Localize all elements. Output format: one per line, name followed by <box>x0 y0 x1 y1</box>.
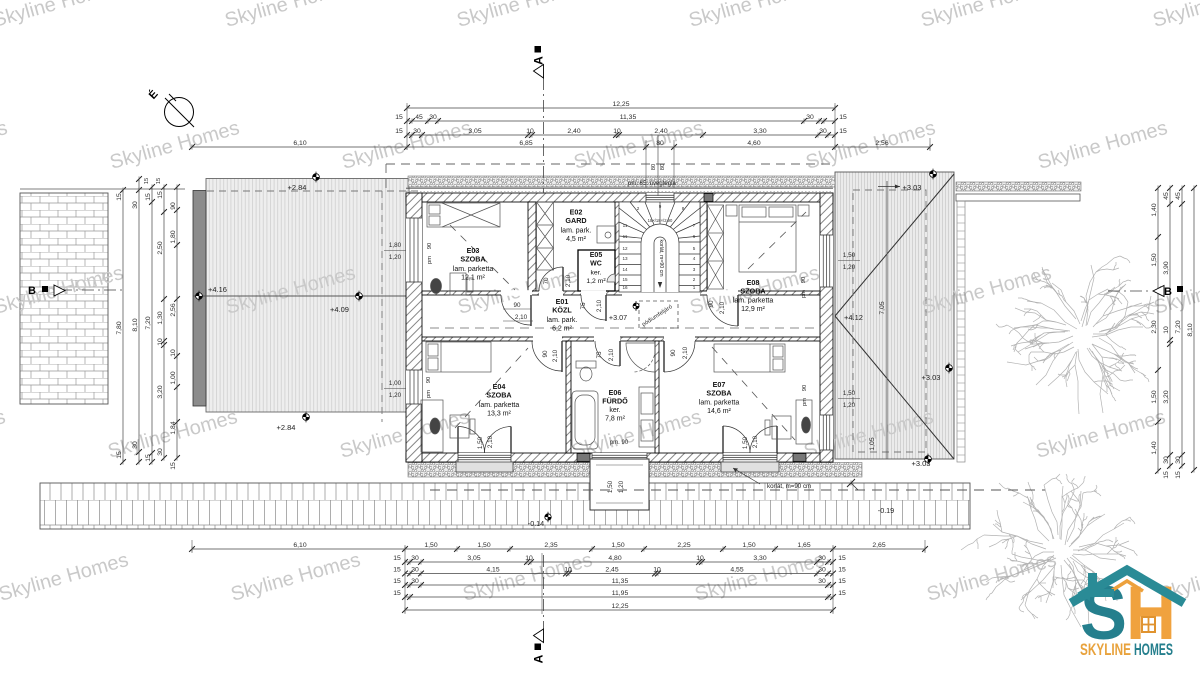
gravel strip above plan <box>408 176 835 187</box>
svg-text:15: 15 <box>393 578 401 585</box>
svg-text:30: 30 <box>818 578 826 585</box>
benchmark level symbol <box>545 512 551 522</box>
svg-text:3,05: 3,05 <box>468 128 481 135</box>
svg-text:6: 6 <box>693 234 696 239</box>
svg-text:80: 80 <box>651 164 657 170</box>
svg-text:12,25: 12,25 <box>612 101 629 108</box>
outer wall top <box>406 193 833 202</box>
pillar bottom wall right of E07 door <box>793 454 806 462</box>
brick paving left <box>20 193 108 404</box>
insulation lines above top wall <box>406 187 833 189</box>
svg-text:15: 15 <box>393 590 401 597</box>
benchmark level symbol <box>313 172 320 183</box>
svg-text:1,50: 1,50 <box>1151 390 1158 403</box>
french door E07 bottom <box>723 453 777 462</box>
svg-text:1,65: 1,65 <box>797 542 810 549</box>
svg-text:15: 15 <box>395 114 403 121</box>
svg-text:15: 15 <box>170 462 177 470</box>
svg-text:10: 10 <box>170 349 177 357</box>
interior wall E03/E02 <box>528 202 536 291</box>
garage middle ridge line <box>193 295 409 297</box>
garage left dark wall <box>193 191 206 407</box>
gravel strip below plan <box>408 463 862 478</box>
svg-text:ker.: ker. <box>609 407 620 414</box>
interior wall E04/E06 <box>566 341 571 453</box>
north arrow <box>165 98 194 127</box>
toilet E06 <box>576 361 596 368</box>
svg-text:30: 30 <box>818 555 826 562</box>
svg-text:4,60: 4,60 <box>747 140 760 147</box>
svg-text:15: 15 <box>157 191 164 199</box>
benchmark level symbol <box>925 454 932 465</box>
nightstands E08 <box>726 205 737 216</box>
svg-text:8: 8 <box>682 206 685 211</box>
korlát leader <box>733 468 760 484</box>
garage dashed line right <box>381 191 383 422</box>
window E03 left wall <box>406 218 422 282</box>
svg-text:90: 90 <box>670 349 677 357</box>
outer wall bottom <box>406 453 833 462</box>
svg-text:10: 10 <box>525 555 533 562</box>
outer wall left <box>406 193 422 462</box>
svg-text:75: 75 <box>596 351 603 359</box>
svg-text:14,6 m²: 14,6 m² <box>707 408 731 415</box>
svg-text:1,20: 1,20 <box>843 264 856 271</box>
svg-text:1,84: 1,84 <box>170 421 177 434</box>
WC E05 walls <box>578 250 615 291</box>
svg-text:2: 2 <box>693 277 696 282</box>
benchmark level symbol <box>356 291 363 302</box>
french leaf E04 right <box>485 427 512 454</box>
brick paving strip bottom <box>40 483 970 529</box>
svg-text:1,50: 1,50 <box>611 542 624 549</box>
tree bottom right <box>961 474 1137 627</box>
level dashed line bottom <box>430 489 1045 491</box>
svg-text:1,80: 1,80 <box>389 242 402 249</box>
svg-text:+3.03: +3.03 <box>922 373 941 382</box>
svg-text:HOMES: HOMES <box>1134 640 1173 659</box>
svg-text:-0.19: -0.19 <box>878 506 894 515</box>
svg-text:pm: pm <box>426 390 432 398</box>
benchmark level symbol <box>826 311 833 322</box>
svg-text:90: 90 <box>426 377 432 383</box>
svg-text:90: 90 <box>708 300 715 308</box>
svg-text:15: 15 <box>145 193 152 201</box>
svg-text:6,2 m²: 6,2 m² <box>552 326 573 333</box>
svg-text:1,30: 1,30 <box>157 311 164 324</box>
svg-text:45: 45 <box>1175 192 1182 200</box>
svg-text:13,3 m²: 13,3 m² <box>487 411 511 418</box>
svg-text:15: 15 <box>838 578 846 585</box>
svg-text:10: 10 <box>526 128 534 135</box>
svg-text:13: 13 <box>622 256 628 261</box>
svg-text:30: 30 <box>818 566 826 573</box>
svg-text:10: 10 <box>653 566 661 573</box>
svg-text:WC: WC <box>590 261 602 268</box>
svg-text:3: 3 <box>693 267 696 272</box>
svg-text:11: 11 <box>623 234 628 239</box>
svg-text:SZOBA: SZOBA <box>706 389 731 398</box>
svg-text:1,05: 1,05 <box>869 437 876 450</box>
roof dashed rectangle <box>853 190 926 452</box>
svg-text:90: 90 <box>542 350 549 358</box>
svg-text:90: 90 <box>427 243 433 249</box>
svg-text:10: 10 <box>157 338 164 346</box>
svg-text:10: 10 <box>1163 326 1170 334</box>
svg-text:15: 15 <box>839 128 847 135</box>
corridor top wall <box>422 291 820 295</box>
bed E08 <box>739 205 796 272</box>
svg-text:+4.12: +4.12 <box>844 313 863 322</box>
svg-text:korlát, m=90 cm: korlát, m=90 cm <box>658 239 664 276</box>
bed E07 <box>714 344 785 372</box>
svg-text:1,20: 1,20 <box>389 392 402 399</box>
svg-text:75: 75 <box>580 302 587 310</box>
svg-text:SKYLINE: SKYLINE <box>1080 640 1131 659</box>
svg-text:lam. parketta: lam. parketta <box>453 266 494 273</box>
svg-text:90: 90 <box>170 202 177 210</box>
glass block window top wall <box>646 193 674 202</box>
svg-text:4: 4 <box>693 256 696 261</box>
svg-text:1,50: 1,50 <box>742 436 749 449</box>
svg-text:2,40: 2,40 <box>654 128 667 135</box>
plan interior white <box>406 193 833 462</box>
svg-text:2,10: 2,10 <box>565 274 572 287</box>
tree top right <box>996 256 1157 414</box>
dim row bottom 6.10 <box>192 548 925 550</box>
svg-text:2,30: 2,30 <box>1151 320 1158 333</box>
svg-text:A: A <box>532 56 546 65</box>
window E08 right wall <box>820 235 833 287</box>
svg-text:15: 15 <box>838 590 846 597</box>
ladder strip right of roof <box>957 201 965 462</box>
french leaf E07 left <box>723 426 750 453</box>
dim col 1.40 <box>1157 188 1159 471</box>
svg-text:1,50: 1,50 <box>742 542 755 549</box>
svg-text:SZOBA: SZOBA <box>740 287 765 296</box>
svg-text:GARD: GARD <box>565 216 586 225</box>
svg-text:pm: pm <box>427 256 433 264</box>
svg-text:2,10: 2,10 <box>596 299 603 312</box>
washbasin E05 <box>607 274 615 282</box>
svg-text:3,20: 3,20 <box>1163 390 1170 403</box>
svg-text:1,20: 1,20 <box>843 402 856 409</box>
svg-text:+3.07: +3.07 <box>609 313 627 322</box>
svg-text:B: B <box>28 285 36 297</box>
interior wall E02/stairs <box>615 202 622 291</box>
svg-text:12: 12 <box>622 246 628 251</box>
svg-text:10: 10 <box>613 128 621 135</box>
room diagonals <box>450 225 515 290</box>
french leaf E04 left <box>458 427 485 454</box>
svg-text:15: 15 <box>1163 471 1170 479</box>
svg-text:1,20: 1,20 <box>618 480 625 493</box>
staircase <box>619 202 700 292</box>
svg-text:2,35: 2,35 <box>544 542 557 549</box>
roof centre wall line <box>886 181 888 459</box>
dim col right of block <box>176 187 178 458</box>
dim row bottom 11.35 <box>405 584 833 586</box>
svg-text:12,9 m²: 12,9 m² <box>741 306 765 313</box>
dim col 7.20 <box>151 187 153 462</box>
stoop below E04 french door <box>456 462 513 472</box>
svg-text:11,35: 11,35 <box>612 578 629 585</box>
svg-text:7,20: 7,20 <box>145 316 152 329</box>
washbasin counter E06 <box>639 387 655 447</box>
dim row 3.05 <box>407 134 835 136</box>
svg-text:30: 30 <box>132 441 139 449</box>
svg-text:30: 30 <box>819 128 827 135</box>
bay stoop below E06 window <box>590 459 649 510</box>
svg-text:E05: E05 <box>590 252 603 259</box>
svg-text:15: 15 <box>116 193 123 201</box>
benchmark level symbol <box>303 412 310 423</box>
svg-text:+3.03: +3.03 <box>903 183 922 192</box>
svg-text:1,00: 1,00 <box>170 371 177 384</box>
svg-text:2,56: 2,56 <box>875 140 888 147</box>
svg-text:7,20: 7,20 <box>1175 320 1182 333</box>
svg-text:10: 10 <box>564 566 572 573</box>
door E05 wc <box>581 295 606 320</box>
door E08 <box>707 295 738 326</box>
dim row 11.35 <box>407 120 835 122</box>
svg-text:korlát, m=90 cm: korlát, m=90 cm <box>767 483 811 490</box>
svg-text:7,8 m²: 7,8 m² <box>605 416 626 423</box>
door E03 <box>501 295 531 325</box>
dim col 7.80 <box>122 190 124 462</box>
svg-text:15: 15 <box>156 178 162 184</box>
svg-text:KÖZL: KÖZL <box>552 306 572 315</box>
window E07 right wall <box>820 415 833 450</box>
svg-text:2,50: 2,50 <box>157 241 164 254</box>
svg-text:3,30: 3,30 <box>753 128 766 135</box>
svg-text:30: 30 <box>1163 456 1170 464</box>
svg-text:15: 15 <box>145 454 152 462</box>
french leaf E07 right <box>750 426 777 453</box>
svg-text:1,2 m²: 1,2 m² <box>586 278 606 285</box>
svg-text:lam. parketta: lam. parketta <box>733 298 774 305</box>
svg-text:8,10: 8,10 <box>1187 323 1194 336</box>
dim col 8.10 <box>138 179 140 462</box>
svg-text:30: 30 <box>411 555 419 562</box>
svg-text:1,50: 1,50 <box>1151 253 1158 266</box>
svg-text:15: 15 <box>393 566 401 573</box>
desk E07 long <box>796 400 812 444</box>
svg-text:7: 7 <box>693 223 696 228</box>
interior wall stairs/E08 <box>700 202 707 291</box>
svg-text:1,40: 1,40 <box>1151 203 1158 216</box>
desk E07 square <box>772 416 791 439</box>
svg-text:90: 90 <box>513 302 521 309</box>
svg-text:4,5 m²: 4,5 m² <box>566 236 587 243</box>
svg-text:1,50: 1,50 <box>843 252 856 259</box>
cabinet E02 <box>597 226 616 243</box>
svg-text:16: 16 <box>622 285 628 290</box>
svg-text:15: 15 <box>393 555 401 562</box>
svg-text:4,55: 4,55 <box>730 566 743 573</box>
svg-text:2,10: 2,10 <box>608 348 615 361</box>
svg-text:lam. park.: lam. park. <box>547 317 578 324</box>
svg-text:30: 30 <box>411 578 419 585</box>
pillar top wall <box>704 194 713 202</box>
svg-text:80: 80 <box>656 140 664 147</box>
svg-text:-0.14: -0.14 <box>528 519 544 528</box>
svg-text:2,10: 2,10 <box>719 301 726 314</box>
svg-text:3,30: 3,30 <box>753 555 766 562</box>
svg-text:lam. parketta: lam. parketta <box>699 400 740 407</box>
svg-text:2,65: 2,65 <box>872 542 885 549</box>
svg-text:+4.16: +4.16 <box>208 285 227 294</box>
bed E04 <box>426 342 491 372</box>
svg-text:30: 30 <box>806 114 814 121</box>
svg-text:15: 15 <box>622 277 628 282</box>
svg-text:12,25: 12,25 <box>611 603 628 610</box>
svg-text:2,10: 2,10 <box>552 349 559 362</box>
svg-text:2,40: 2,40 <box>567 128 580 135</box>
Skyline Homes logo <box>1071 570 1184 659</box>
svg-text:lam. parketta: lam. parketta <box>479 402 520 409</box>
svg-text:15: 15 <box>144 178 150 184</box>
roof hip lines <box>835 174 954 316</box>
svg-text:+2.84: +2.84 <box>288 183 307 192</box>
svg-text:pm: pm <box>801 290 807 298</box>
corridor bottom wall <box>422 337 820 341</box>
svg-text:pm: pm <box>802 398 808 406</box>
door E04 <box>532 341 562 371</box>
dim row bottom 12.25 <box>405 609 833 611</box>
section marker B right <box>1108 290 1152 292</box>
corridor dashed line <box>430 327 818 329</box>
svg-text:30: 30 <box>429 114 437 121</box>
bed E03 <box>427 203 500 227</box>
svg-text:FÜRDŐ: FÜRDŐ <box>602 397 628 406</box>
svg-text:4,80: 4,80 <box>608 555 621 562</box>
svg-text:1,40: 1,40 <box>1151 441 1158 454</box>
svg-text:18×/18×/2.90: 18×/18×/2.90 <box>648 218 673 223</box>
svg-text:2: 2 <box>637 206 640 211</box>
dim row bottom 4.80 <box>405 561 833 563</box>
svg-text:3,20: 3,20 <box>157 385 164 398</box>
dashed roof outline top left <box>386 163 833 165</box>
svg-text:SZOBA: SZOBA <box>486 391 511 400</box>
interior wall E06/E07 <box>655 341 659 453</box>
dim col 3.90 <box>1169 188 1171 466</box>
svg-text:15: 15 <box>116 451 123 459</box>
dim col 7.20 right <box>1181 188 1183 466</box>
svg-text:lam. park.: lam. park. <box>561 228 592 235</box>
benchmark level symbol <box>196 291 203 302</box>
svg-text:15: 15 <box>838 566 846 573</box>
bathtub E06 <box>572 391 598 449</box>
svg-text:6,10: 6,10 <box>293 140 306 147</box>
dim col 8.10 right <box>1193 188 1195 470</box>
pillar bottom wall left of bay <box>577 454 590 462</box>
svg-text:3,05: 3,05 <box>467 555 480 562</box>
svg-text:1,50: 1,50 <box>607 480 614 493</box>
gravel strip right of roof <box>956 182 1081 191</box>
benchmark level symbol <box>930 169 937 180</box>
svg-text:2,56: 2,56 <box>170 303 177 316</box>
svg-text:+2.84: +2.84 <box>277 423 296 432</box>
svg-text:1,20: 1,20 <box>389 254 402 261</box>
svg-text:1,50: 1,50 <box>843 390 856 397</box>
svg-text:pm. 90: pm. 90 <box>610 440 629 446</box>
svg-text:5: 5 <box>693 246 696 251</box>
bay window E06 bottom <box>592 453 647 462</box>
svg-text:12,1 m²: 12,1 m² <box>461 275 485 282</box>
svg-text:2,25: 2,25 <box>677 542 690 549</box>
svg-text:A: A <box>532 654 546 663</box>
roof overhang area (right grey) <box>835 172 954 459</box>
svg-text:2,10: 2,10 <box>682 346 689 359</box>
svg-text:1,50: 1,50 <box>477 542 490 549</box>
svg-text:+4.09: +4.09 <box>330 305 349 314</box>
svg-text:7,05: 7,05 <box>879 301 886 314</box>
garage dashed line top <box>207 190 420 192</box>
door E07 <box>664 341 695 372</box>
svg-text:2,10: 2,10 <box>515 314 528 321</box>
dim col 2.50 <box>163 187 165 458</box>
dim row bottom 11.95 <box>405 596 833 598</box>
stoop below E07 french door <box>721 462 779 472</box>
svg-text:ker.: ker. <box>591 270 602 277</box>
svg-text:1,50: 1,50 <box>424 542 437 549</box>
svg-text:1,80: 1,80 <box>170 230 177 243</box>
svg-text:90: 90 <box>801 277 807 283</box>
svg-text:1: 1 <box>693 285 696 290</box>
svg-text:30: 30 <box>132 201 139 209</box>
svg-text:11,95: 11,95 <box>612 590 629 597</box>
section marker B left <box>60 289 122 291</box>
dim row 12.25 <box>407 107 835 109</box>
french door E04 bottom <box>458 453 511 462</box>
svg-text:14: 14 <box>622 267 628 272</box>
svg-text:3,90: 3,90 <box>1163 261 1170 274</box>
svg-text:6,85: 6,85 <box>519 140 532 147</box>
wardrobe E02 <box>537 202 554 270</box>
benchmark level symbol <box>946 363 953 374</box>
svg-text:7,80: 7,80 <box>116 321 123 334</box>
desk E04 long <box>421 400 443 452</box>
section marker A bottom <box>543 555 545 629</box>
svg-text:6,10: 6,10 <box>293 542 306 549</box>
svg-text:15: 15 <box>395 128 403 135</box>
svg-text:B: B <box>1164 286 1172 298</box>
carport / garage roof area (left grey) <box>206 179 409 413</box>
svg-text:15: 15 <box>838 555 846 562</box>
door E02 gard <box>539 267 563 291</box>
svg-text:15: 15 <box>1175 471 1182 479</box>
benchmark level symbol <box>633 301 639 311</box>
dim row bottom 4.15 <box>405 573 833 575</box>
wardrobe E08 <box>708 205 724 289</box>
svg-text:15: 15 <box>839 114 847 121</box>
svg-text:11: 11 <box>623 223 628 228</box>
svg-text:2,10: 2,10 <box>752 435 759 448</box>
svg-text:4,15: 4,15 <box>486 566 499 573</box>
podium dashed rect <box>639 301 678 328</box>
door E06 <box>595 341 620 366</box>
svg-text:1,50: 1,50 <box>477 436 484 449</box>
svg-text:45: 45 <box>415 114 423 121</box>
window E04 left wall <box>406 370 422 404</box>
svg-text:45: 45 <box>1163 192 1170 200</box>
desk E03 <box>450 273 466 295</box>
svg-text:11,35: 11,35 <box>620 114 637 121</box>
svg-text:9: 9 <box>659 204 662 209</box>
svg-text:30: 30 <box>413 128 421 135</box>
desk E04 square <box>450 415 469 438</box>
